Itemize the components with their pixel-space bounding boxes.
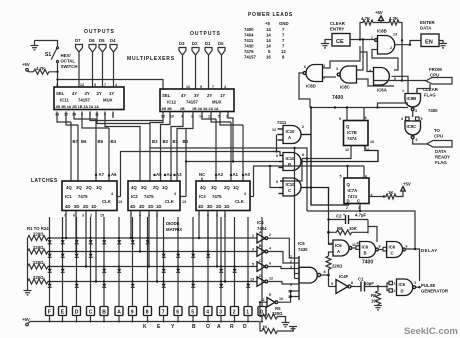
wire IC8B lower input feedback — [372, 50, 398, 71]
wire key column B — [103, 217, 105, 306]
svg-text:B2: B2 — [163, 139, 169, 144]
inverter IC4F — [336, 280, 348, 294]
ground (CE) — [325, 40, 332, 44]
wire key B to bus — [103, 316, 105, 322]
diode key 3 row3 — [220, 265, 222, 267]
svg-text:IC6: IC6 — [399, 282, 406, 287]
node A6 — [108, 174, 110, 176]
svg-text:15: 15 — [100, 214, 104, 218]
svg-text:O: O — [206, 324, 210, 330]
svg-text:IC10: IC10 — [286, 182, 296, 187]
svg-text:B4: B4 — [111, 139, 117, 144]
diode key E row3 — [61, 265, 63, 267]
svg-text:1: 1 — [246, 310, 249, 316]
svg-text:IC12: IC12 — [167, 100, 177, 105]
svg-text:A: A — [117, 310, 121, 316]
svg-text:D7: D7 — [75, 38, 81, 43]
wire IC8A input pullup — [360, 52, 374, 72]
multiplexer IC11 74157 — [54, 87, 124, 110]
nand IC8B — [378, 36, 395, 55]
svg-text:6: 6 — [276, 154, 278, 158]
svg-text:PULSE: PULSE — [421, 283, 435, 288]
svg-text:2D: 2D — [216, 204, 222, 209]
svg-text:2: 2 — [390, 46, 392, 50]
svg-text:IC6: IC6 — [362, 245, 369, 250]
svg-text:1: 1 — [371, 36, 373, 40]
svg-text:D5: D5 — [99, 38, 105, 43]
svg-text:FROM: FROM — [429, 67, 442, 72]
wire IC3 latch input drops — [198, 211, 200, 239]
svg-text:C: C — [259, 259, 262, 263]
svg-text:SEL: SEL — [162, 93, 171, 98]
wire key column 3 — [220, 217, 222, 306]
svg-text:IC9C: IC9C — [407, 124, 417, 129]
svg-text:IC9B: IC9B — [407, 96, 417, 101]
svg-text:+5V: +5V — [375, 10, 383, 15]
wire key D to bus — [76, 316, 78, 322]
svg-text:13: 13 — [393, 33, 397, 37]
diode key A row1 — [118, 237, 120, 239]
node A0 — [242, 174, 244, 176]
wire B7 column — [70, 122, 72, 181]
wire key column 6 — [177, 217, 179, 306]
wire IC12 pin5 drop — [220, 112, 243, 126]
wire IC11 pin2 drop — [112, 112, 114, 119]
svg-text:3: 3 — [336, 67, 338, 71]
svg-text:6: 6 — [406, 245, 408, 249]
svg-text:D2: D2 — [192, 41, 198, 46]
svg-text:2: 2 — [346, 206, 348, 210]
key switch 1 — [244, 307, 252, 316]
diode key A row3 — [118, 265, 120, 267]
latch IC3 7475 — [196, 181, 250, 211]
svg-text:IC6: IC6 — [389, 245, 396, 250]
svg-text:74157: 74157 — [186, 100, 199, 105]
node A1 — [230, 174, 232, 176]
svg-text:OCTAL: OCTAL — [61, 59, 76, 64]
svg-text:D6: D6 — [89, 38, 95, 43]
wire D3 to IC12 — [182, 55, 184, 89]
wire key column 1 — [247, 217, 249, 306]
wire key 1 to bus — [247, 316, 249, 322]
svg-text:3D: 3D — [74, 204, 80, 209]
svg-text:ENTRY: ENTRY — [330, 27, 345, 32]
svg-text:IC10: IC10 — [286, 156, 296, 161]
diode key E row2 — [61, 250, 63, 252]
svg-text:8: 8 — [365, 116, 367, 120]
svg-text:MULTIPLEXERS: MULTIPLEXERS — [127, 56, 175, 62]
wire IC5 out to IC4F — [329, 286, 337, 288]
wire key E to bus — [62, 316, 64, 322]
svg-text:8: 8 — [324, 270, 326, 274]
wire IC7A pin6 up — [363, 166, 365, 178]
key switch A — [115, 307, 123, 316]
svg-text:S1: S1 — [45, 52, 51, 58]
wire key 8 to bus — [147, 316, 149, 322]
svg-text:2: 2 — [394, 289, 396, 293]
svg-text:4.7K: 4.7K — [361, 16, 371, 21]
svg-text:2Q: 2Q — [86, 185, 92, 190]
wire CE to IC8B — [350, 39, 375, 41]
svg-text:1: 1 — [394, 282, 396, 286]
svg-text:OUTPUTS: OUTPUTS — [190, 31, 221, 37]
wire IC8C inputs — [357, 40, 364, 71]
svg-text:4: 4 — [224, 85, 226, 89]
wire key C to bus — [90, 316, 92, 322]
svg-text:A: A — [217, 324, 221, 330]
wire IC12 pin4 drop — [171, 112, 183, 182]
wire key column 9 — [132, 217, 134, 306]
svg-text:IC8A: IC8A — [377, 88, 387, 93]
wire IC11 pin11 crosslink — [97, 112, 150, 124]
wire key 4 to bus — [207, 316, 209, 322]
wire IC4E input — [260, 302, 267, 310]
wire key 2 to bus — [234, 316, 236, 322]
wire IC12 pin10 drop — [161, 112, 171, 182]
wire B4 column — [108, 128, 110, 181]
key switch 3 — [217, 307, 225, 316]
key switch 7 — [160, 307, 168, 316]
key switch E — [59, 307, 67, 316]
wire delay net to IC7A clock — [359, 204, 361, 212]
svg-text:4Q: 4Q — [131, 185, 137, 190]
wire D5 to IC11 — [102, 52, 104, 87]
wire key 6 to bus — [177, 316, 179, 322]
svg-text:13: 13 — [182, 200, 186, 204]
svg-text:CLK: CLK — [102, 199, 112, 204]
svg-text:+5V: +5V — [22, 317, 30, 322]
svg-text:8: 8 — [379, 245, 381, 249]
diode key D row4 — [75, 280, 77, 282]
svg-text:ENTER: ENTER — [420, 20, 435, 25]
wire IC8A lower input from CPU — [374, 80, 427, 82]
wire IC9C output to connector — [413, 139, 428, 144]
svg-text:CE: CE — [336, 39, 344, 45]
ground (switch S1 common) — [31, 41, 39, 50]
wire IC8A output — [392, 76, 409, 93]
svg-text:D1: D1 — [205, 41, 211, 46]
svg-text:8: 8 — [302, 153, 304, 157]
svg-text:3: 3 — [219, 310, 222, 316]
wire key 3 to bus — [220, 316, 222, 322]
wire B5 column — [95, 119, 97, 181]
svg-text:DATA: DATA — [435, 149, 446, 154]
wire IC10A input drop — [276, 135, 278, 152]
svg-text:A5: A5 — [156, 172, 162, 177]
svg-text:B: B — [259, 244, 262, 248]
svg-text:IC10: IC10 — [286, 129, 296, 134]
svg-text:A0: A0 — [245, 172, 251, 177]
wire IC4F to C1 — [351, 286, 361, 288]
switch CE (clear entry) — [332, 34, 350, 47]
svg-text:16: 16 — [266, 55, 271, 60]
svg-text:IC11: IC11 — [60, 98, 69, 103]
svg-text:SEL: SEL — [56, 91, 65, 96]
ground (EN) — [439, 41, 443, 44]
wire C1 to IC6D — [378, 283, 389, 287]
svg-text:4: 4 — [111, 192, 113, 196]
svg-text:6: 6 — [269, 262, 271, 266]
wire key column 7 — [163, 217, 165, 306]
wire IC4E output to IC5 — [278, 291, 295, 302]
diode key C row1 — [89, 237, 91, 239]
nand IC8C (faces left) — [340, 66, 356, 83]
svg-text:B3: B3 — [152, 139, 158, 144]
svg-text:2Q: 2Q — [224, 185, 230, 190]
svg-text:4D: 4D — [65, 204, 71, 209]
nand IC6C — [387, 242, 403, 258]
switch S1 — [57, 47, 59, 49]
svg-text:74157: 74157 — [244, 55, 257, 60]
wire IC7B pin12 down-left — [302, 146, 351, 159]
svg-text:4.7µF: 4.7µF — [355, 213, 366, 218]
node A5 — [153, 174, 155, 176]
diode key F row2 — [48, 250, 50, 252]
svg-text:3: 3 — [290, 265, 292, 269]
svg-text:7400: 7400 — [244, 27, 254, 32]
svg-text:CLEAR: CLEAR — [423, 87, 439, 92]
svg-text:F: F — [48, 310, 51, 316]
svg-text:D: D — [243, 324, 247, 330]
wire D4 to IC11 — [113, 52, 115, 87]
svg-text:HEX/: HEX/ — [61, 53, 72, 58]
svg-text:6: 6 — [416, 138, 418, 142]
svg-text:B5: B5 — [98, 139, 104, 144]
diode key 2 row3 — [233, 265, 235, 267]
svg-text:7: 7 — [212, 85, 214, 89]
diode key 6 row2 — [177, 250, 179, 252]
nand IC5 7430 (8-input) — [298, 256, 300, 300]
svg-text:220Ω: 220Ω — [332, 264, 343, 269]
svg-text:3Q: 3Q — [211, 185, 217, 190]
wire B0 branch to IC10B — [186, 144, 283, 162]
svg-text:5: 5 — [191, 310, 194, 316]
node A7 — [95, 174, 97, 176]
wire key column 0 — [261, 217, 263, 306]
svg-text:4Y: 4Y — [181, 93, 186, 98]
svg-text:2Q: 2Q — [153, 185, 159, 190]
svg-text:5: 5 — [252, 263, 254, 267]
wire D1 to IC12 — [208, 55, 210, 89]
svg-text:1D: 1D — [91, 204, 97, 209]
svg-text:D4: D4 — [110, 38, 116, 43]
wire key column 2 — [234, 217, 236, 306]
svg-text:4: 4 — [115, 83, 117, 87]
svg-text:IC7B: IC7B — [347, 130, 357, 135]
svg-text:B: B — [192, 324, 196, 330]
svg-text:2: 2 — [302, 125, 304, 129]
svg-text:4Q: 4Q — [66, 185, 72, 190]
svg-text:11: 11 — [288, 290, 292, 294]
svg-text:D3: D3 — [179, 41, 185, 46]
wire B6 column — [77, 125, 79, 181]
wire IC9B input2 — [417, 84, 430, 94]
key switch F — [46, 307, 54, 316]
key switch D — [73, 307, 81, 316]
svg-text:7475: 7475 — [144, 194, 154, 199]
svg-text:7475: 7475 — [244, 49, 254, 54]
wire D2 to IC12 — [195, 55, 197, 89]
connector TO CPU — [427, 141, 452, 148]
svg-text:IC6: IC6 — [335, 243, 342, 248]
svg-text:2: 2 — [290, 260, 292, 264]
svg-text:GND: GND — [279, 21, 289, 26]
diode key 6 row3 — [177, 265, 179, 267]
svg-text:10K: 10K — [349, 226, 358, 231]
svg-text:12: 12 — [281, 49, 286, 54]
svg-text:DIODE: DIODE — [166, 221, 180, 226]
svg-text:OUTPUTS: OUTPUTS — [84, 29, 115, 35]
svg-text:D: D — [75, 310, 79, 316]
svg-text:2Y: 2Y — [207, 93, 212, 98]
svg-text:C: C — [357, 199, 360, 204]
svg-text:9: 9 — [200, 85, 202, 89]
svg-text:CLEAR: CLEAR — [330, 21, 346, 26]
wire B3 column — [150, 121, 163, 182]
svg-text:B6: B6 — [81, 139, 87, 144]
svg-text:9: 9 — [339, 117, 341, 121]
wire keyboard common bus — [28, 322, 262, 332]
wire IC1 clock to IC10B — [121, 152, 284, 197]
svg-text:GENERATOR: GENERATOR — [421, 289, 449, 294]
wire feeder to IC5 — [294, 148, 296, 279]
wire key column D — [76, 217, 78, 306]
svg-text:1: 1 — [252, 234, 254, 238]
svg-text:IC3: IC3 — [199, 194, 206, 199]
diode key 7 row4 — [162, 280, 164, 282]
diode key 7 row3 — [162, 265, 164, 267]
wire NC stub — [201, 178, 203, 182]
key switch 9 — [129, 307, 137, 316]
svg-text:7411: 7411 — [244, 38, 254, 43]
wire key column 4 — [207, 217, 209, 306]
svg-text:4: 4 — [206, 310, 209, 316]
svg-text:2: 2 — [90, 214, 92, 218]
svg-text:A6: A6 — [111, 172, 117, 177]
svg-text:+5V: +5V — [403, 182, 411, 187]
svg-text:IC7A: IC7A — [348, 188, 358, 193]
svg-text:B: B — [288, 162, 291, 167]
svg-text:1B 4A 3A 2A 1A: 1B 4A 3A 2A 1A — [192, 107, 219, 111]
wire IC6A in2 from 220 — [329, 252, 334, 256]
nand IC8A — [374, 68, 390, 86]
ground (R6) — [374, 306, 382, 310]
wire key column F — [49, 217, 51, 306]
nand IC9C (vertical) — [406, 117, 410, 121]
svg-text:10µF: 10µF — [364, 281, 374, 286]
svg-text:11: 11 — [366, 148, 370, 152]
svg-text:10: 10 — [370, 140, 374, 144]
diode key C row2 — [89, 250, 91, 252]
svg-text:IC5: IC5 — [298, 241, 305, 246]
wire IC11 pin5 crosslink — [105, 112, 140, 182]
svg-text:C: C — [391, 251, 394, 256]
wire IC7B pin11 stub — [364, 146, 366, 151]
svg-text:12: 12 — [186, 85, 190, 89]
svg-text:MATRIX: MATRIX — [166, 227, 182, 232]
ground (keyboard 1K) — [289, 327, 297, 331]
latch IC1 7475 — [62, 181, 117, 211]
svg-text:A4: A4 — [167, 172, 173, 177]
wire IC3 clock net y166 — [254, 166, 365, 197]
svg-text:D: D — [401, 289, 404, 294]
diode key 5 row4 — [192, 280, 194, 282]
wire IC5 output — [321, 275, 329, 287]
svg-text:SWITCH: SWITCH — [61, 64, 78, 69]
wire IC4C out to IC5 — [268, 267, 295, 269]
svg-text:IC8B: IC8B — [377, 29, 387, 34]
wire IC11 pin6 drop — [82, 112, 109, 129]
node A2 — [215, 174, 217, 176]
wire IC7A pin4 to 1K — [369, 196, 384, 198]
svg-text:4: 4 — [269, 247, 271, 251]
svg-text:2: 2 — [269, 233, 271, 237]
nand IC6A — [333, 240, 349, 256]
flip-flop IC7A 7474 — [344, 178, 369, 204]
nand IC9B (vertical) — [405, 94, 421, 107]
svg-text:4B 3B: 4B 3B — [162, 107, 173, 111]
diode key B row1 — [103, 237, 105, 239]
svg-text:14: 14 — [266, 27, 271, 32]
wire IC8D output loop — [299, 73, 310, 108]
svg-text:3Y: 3Y — [194, 93, 199, 98]
svg-text:1Q: 1Q — [162, 185, 168, 190]
wire IC6D output — [416, 286, 420, 288]
svg-text:7400: 7400 — [428, 108, 438, 113]
svg-text:B0: B0 — [183, 139, 189, 144]
wire IC11 pin13 drop — [57, 112, 71, 123]
wire key 9 to bus — [132, 316, 134, 322]
svg-text:R: R — [230, 324, 234, 330]
op-amp IC10A (3-input AND 7411) — [278, 108, 312, 188]
svg-text:1Q: 1Q — [233, 185, 239, 190]
wire key 0 to bus — [261, 316, 263, 322]
node A4 — [164, 174, 166, 176]
svg-text:R1 TO R24: R1 TO R24 — [27, 226, 49, 231]
diode key 8 row1 — [146, 237, 148, 239]
svg-text:2D: 2D — [83, 204, 89, 209]
svg-text:4: 4 — [244, 192, 246, 196]
svg-text:4D: 4D — [198, 204, 204, 209]
wire key column C — [90, 217, 92, 306]
svg-text:9: 9 — [94, 83, 96, 87]
wire key column A — [118, 217, 120, 306]
svg-text:12: 12 — [80, 83, 84, 87]
diode key F row1 — [48, 237, 50, 239]
svg-text:B7: B7 — [73, 139, 79, 144]
svg-text:13: 13 — [250, 278, 254, 282]
wire C2/R8 loop left — [329, 205, 334, 244]
key switch 5 — [189, 307, 197, 316]
diode key D row1 — [75, 237, 77, 239]
wire IC12 pin3 drop B0 — [177, 112, 193, 182]
svg-text:12: 12 — [269, 277, 273, 281]
svg-text:12: 12 — [288, 295, 292, 299]
svg-text:MUX: MUX — [103, 98, 113, 103]
wire key column 5 — [192, 217, 194, 306]
flip-flop IC7B 7474 — [344, 121, 369, 146]
svg-text:7404: 7404 — [244, 33, 254, 38]
wire key column E — [62, 217, 64, 306]
wire S1 top — [35, 41, 58, 48]
wire D6 to IC11 — [92, 52, 94, 87]
svg-text:8: 8 — [146, 310, 149, 316]
svg-text:6: 6 — [73, 214, 75, 218]
wire key 7 to bus — [163, 316, 165, 322]
wire SEL bus to IC12 — [57, 72, 59, 87]
wire IC12 pin13 drop — [162, 112, 164, 121]
svg-text:5: 5 — [340, 175, 342, 179]
